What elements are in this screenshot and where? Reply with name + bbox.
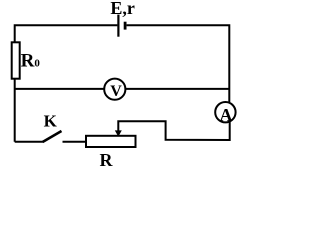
voltmeter U-V circle — [104, 79, 125, 100]
switch K lever — [43, 131, 62, 142]
wire: middle horizontal (voltmeter branch) — [15, 88, 230, 90]
svg-text:V: V — [110, 83, 122, 100]
resistor R0 box — [12, 42, 20, 78]
rheostat wiper arrowhead — [115, 130, 122, 136]
wire: switch right contact to rheostat left terminal — [63, 141, 87, 143]
wire: bottom-left run to switch pivot — [15, 141, 43, 143]
battery long plate — [117, 15, 119, 37]
svg-text:E,r: E,r — [110, 0, 135, 18]
wire: left vertical + top-left run to battery — [15, 25, 118, 141]
rheostat R box — [86, 136, 136, 147]
ammeter U-A circle — [215, 102, 235, 122]
battery short plate — [124, 22, 127, 30]
wire: top-right run from battery + right vertical down to ammeter — [127, 25, 230, 102]
svg-text:A: A — [220, 105, 233, 125]
svg-text:K: K — [44, 112, 58, 131]
svg-text:R: R — [100, 150, 114, 170]
wire: ammeter bottom stub + bottom-right run + riser to wiper wire — [118, 121, 229, 140]
